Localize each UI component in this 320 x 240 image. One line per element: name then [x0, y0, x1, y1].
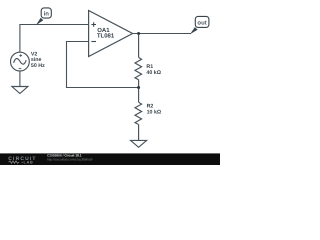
footer bar	[0, 153, 220, 165]
node: output junction	[137, 32, 140, 35]
R1 label	[146, 64, 161, 76]
svg-text:TL081: TL081	[97, 32, 115, 39]
wire: op-amp output	[133, 33, 191, 35]
node: divider junction	[137, 86, 140, 89]
svg-text:10 kΩ: 10 kΩ	[147, 110, 162, 116]
wire: V2 bottom to ground	[19, 71, 21, 87]
R2 label	[147, 103, 162, 115]
wire: V2 top to op-amp + input	[20, 25, 89, 53]
V2 value label	[31, 52, 45, 69]
resistor R2	[135, 89, 142, 141]
resistor R1	[135, 35, 142, 88]
svg-text:50 Hz: 50 Hz	[31, 63, 45, 69]
op-amp OA1	[89, 11, 133, 57]
svg-text:http://circuitlab.com/c/cu38ah: http://circuitlab.com/c/cu38ahs9/	[47, 157, 93, 161]
ground (V2)	[12, 87, 28, 94]
wire: feedback from - input to divider	[67, 42, 139, 88]
node flag in	[36, 8, 51, 25]
footer logo CIRCUIT LAB	[8, 156, 36, 164]
svg-text:R2: R2	[147, 103, 154, 109]
svg-text:40 kΩ: 40 kΩ	[146, 70, 161, 76]
svg-text:R1: R1	[146, 64, 153, 70]
ground (R2)	[131, 140, 147, 147]
voltage source V2	[11, 52, 30, 71]
svg-text:▪LAB: ▪LAB	[22, 161, 34, 165]
node flag out	[190, 16, 209, 34]
svg-text:out: out	[197, 20, 206, 26]
svg-text:in: in	[44, 10, 50, 17]
